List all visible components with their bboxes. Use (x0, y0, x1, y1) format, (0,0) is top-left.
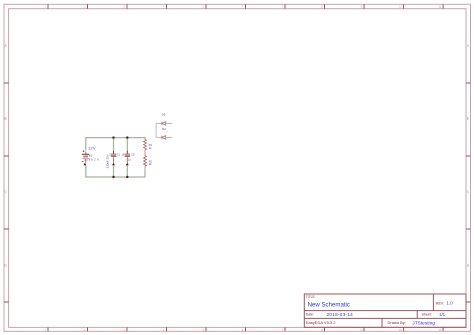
svg-text:2018-03-14: 2018-03-14 (327, 312, 354, 317)
svg-text:TITLE:: TITLE: (306, 295, 316, 299)
junction bottom branch2 (126, 176, 128, 178)
ruler numbers bottom (45, 328, 442, 332)
resistor R2 (144, 156, 147, 167)
REV cell divider (432, 294, 434, 311)
ruler letters right (467, 44, 470, 268)
top pin (85, 152, 87, 155)
wire bottom (node N2) (86, 176, 145, 178)
wire top (node N1) (86, 137, 145, 139)
svg-text:220uF 25V: 220uF 25V (105, 154, 109, 168)
junction top branch2 (126, 136, 128, 138)
pin between R1 R2 (144, 150, 146, 156)
Drawn By cell divider (381, 318, 383, 327)
svg-text:12V: 12V (88, 146, 96, 151)
svg-text:D4: D4 (162, 127, 166, 131)
diode D3 (156, 122, 172, 126)
short thick plate (83, 156, 88, 158)
svg-text:C5: C5 (131, 153, 135, 157)
diode bracket wire (155, 123, 157, 137)
capacitor C5 (125, 151, 130, 165)
diode D4 (156, 136, 172, 140)
top ruler ticks (48, 4, 443, 8)
svg-text:B: B (5, 117, 7, 121)
junction bottom branch1 (112, 176, 114, 178)
row divider 1 (304, 310, 466, 312)
right ruler ticks (466, 83, 471, 302)
svg-text:Drawn By:: Drawn By: (388, 320, 406, 325)
svg-text:JTStesting: JTStesting (412, 320, 435, 326)
wire branch2 top (126, 137, 128, 152)
svg-text:EasyEDA V5.3.2: EasyEDA V5.3.2 (306, 320, 336, 325)
svg-text:1/1: 1/1 (439, 312, 446, 317)
Sheet cell divider (416, 311, 418, 319)
resistor R1 (144, 139, 147, 150)
wire branch1 bottom (113, 166, 115, 178)
short thick plate 2 (faint) (84, 159, 88, 161)
pin below R2 (144, 166, 146, 170)
svg-text:New Schematic: New Schematic (308, 302, 350, 309)
junction top branch1 (112, 136, 114, 138)
title block outline (304, 294, 466, 327)
wire left bottom (battery bottom lead) (85, 166, 87, 178)
plus sign (83, 150, 85, 152)
wire branch1 top (113, 137, 115, 152)
long plate 1 (82, 153, 89, 155)
svg-text:D3: D3 (162, 113, 166, 117)
row divider 2 (304, 317, 466, 319)
wire branch2 bottom (126, 166, 128, 178)
battery BT1 (82, 150, 89, 165)
svg-text:B: B (467, 117, 469, 121)
ruler numbers top (45, 5, 442, 9)
long plate 2 (faint) (82, 158, 89, 160)
minus sign (82, 161, 84, 163)
svg-text:REV:: REV: (436, 301, 444, 305)
ruler letters left (5, 44, 8, 268)
left ruler ticks (4, 83, 9, 302)
svg-text:Sheet:: Sheet: (422, 313, 432, 317)
bottom ruler ticks (48, 327, 443, 331)
bottom pin arrow (84, 163, 87, 166)
wire right top corner (144, 138, 147, 140)
svg-text:1.0: 1.0 (446, 301, 453, 306)
svg-text:80.2 K: 80.2 K (89, 158, 100, 162)
wire left top (battery top lead) (85, 137, 87, 151)
capacitor C1 (111, 151, 116, 165)
wire right bottom (144, 170, 147, 177)
svg-text:C1: C1 (117, 152, 121, 156)
svg-text:Date:: Date: (306, 313, 314, 317)
